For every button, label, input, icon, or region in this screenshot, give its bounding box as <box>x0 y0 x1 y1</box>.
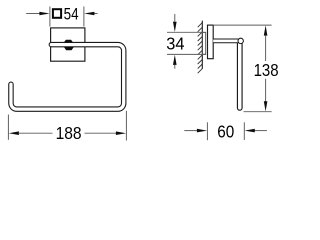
dim 34: bottom extension line <box>167 53 206 55</box>
dim 54: left extension line <box>49 7 51 27</box>
wall plate (square rosette) <box>51 28 85 61</box>
arm white core <box>213 40 241 43</box>
dim 188: line left segment <box>19 132 53 134</box>
dim 138: bottom arrow (down) <box>264 101 268 111</box>
dim 54: right arrow <box>84 12 94 16</box>
dim 60: right tail line <box>254 130 267 132</box>
dim 60: left tail line <box>184 130 198 132</box>
svg-text:188: 188 <box>56 123 82 143</box>
dim 54: right extension line <box>83 7 85 27</box>
clamp upper trapezoid <box>64 40 73 43</box>
dim 60: right extension line <box>243 122 245 140</box>
wall line <box>201 21 203 69</box>
rosette plate (side) <box>208 25 214 59</box>
dim 188: left arrow <box>9 131 19 135</box>
dim 34: top tail line <box>174 14 176 23</box>
dim 34: top arrow (down) <box>173 22 177 32</box>
dim 138: top extension line <box>214 24 272 26</box>
dim 60: left arrow <box>197 129 207 133</box>
svg-text:60: 60 <box>217 122 234 142</box>
mounting bracket (side) <box>203 32 206 54</box>
towel ring tube (white core) <box>11 45 124 110</box>
dim 138: upper line segment <box>265 35 267 61</box>
towel ring tube (outer outline) <box>11 45 124 110</box>
arm (horizontal) black <box>213 39 238 44</box>
dim 138: top arrow (up) <box>264 25 268 35</box>
dim 60: left extension line <box>206 122 208 140</box>
dim 188: right arrow <box>116 131 126 135</box>
dim 34: bottom tail line <box>174 65 176 69</box>
dim 188: left extension line <box>7 115 9 140</box>
dim 54: left tail line <box>26 13 42 15</box>
hanging bar (vertical, rounded bottom) black <box>237 43 243 108</box>
dim 188: right extension line <box>125 111 127 141</box>
dim 34: bottom arrow (up) <box>173 55 177 65</box>
bend circle <box>238 38 243 43</box>
dim 54: right tail line <box>94 13 98 15</box>
dim 34: top extension line <box>167 31 206 33</box>
svg-text:138: 138 <box>254 60 279 80</box>
dim 138: lower line segment <box>265 79 267 102</box>
dim 188: line right segment <box>85 132 117 134</box>
dim 60: right arrow <box>245 129 255 133</box>
hanging bar white core <box>238 42 242 108</box>
dim 138: bottom extension line <box>244 111 272 113</box>
dim 54: square symbol <box>53 9 61 18</box>
dim 54: left arrow <box>39 12 49 16</box>
svg-text:54: 54 <box>64 6 79 24</box>
clamp lower trapezoid <box>64 47 74 50</box>
svg-text:34: 34 <box>166 34 185 54</box>
wall hatching <box>198 23 203 74</box>
